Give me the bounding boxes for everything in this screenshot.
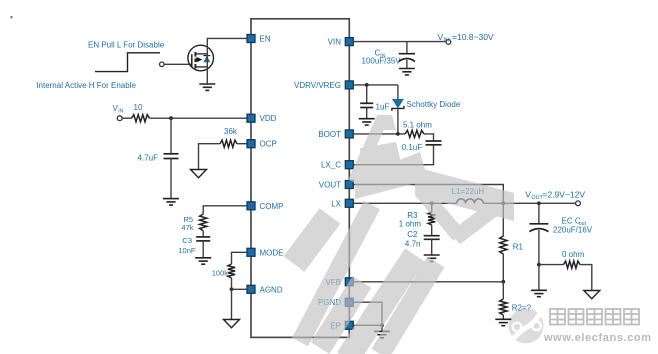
switch S1 contact	[160, 62, 165, 67]
svg-text:EN: EN	[260, 35, 271, 44]
svg-text:36k: 36k	[224, 127, 238, 136]
pin LX_C	[345, 161, 353, 169]
switch S1 lever	[95, 53, 160, 72]
ground under C3	[195, 258, 211, 264]
pin COMP	[247, 202, 255, 210]
svg-text:10: 10	[134, 103, 143, 112]
wire 36k to OCP pin	[237, 143, 247, 145]
svg-text:C3: C3	[182, 236, 192, 245]
svg-text:VDD: VDD	[260, 114, 277, 123]
pin EN	[247, 35, 255, 43]
pin BOOT	[345, 130, 353, 138]
ground under 1uF	[359, 119, 375, 125]
wire VFB pin to divider	[353, 281, 503, 283]
wire junction down	[381, 325, 383, 331]
svg-text:AGND: AGND	[260, 285, 283, 294]
pin EP	[345, 321, 353, 329]
node 0 ohm junction	[537, 263, 541, 267]
wire LX pin to inductor	[353, 202, 456, 204]
svg-text:EN Pull L For Disable: EN Pull L For Disable	[88, 40, 165, 49]
ground under R2	[495, 319, 511, 325]
svg-text:100uF/35V: 100uF/35V	[362, 56, 402, 65]
ground under C2	[424, 255, 440, 261]
svg-text:V: V	[438, 32, 444, 42]
pin PGND	[345, 298, 353, 306]
svg-text:100k: 100k	[212, 269, 229, 278]
ground under CIN	[399, 69, 415, 75]
pin LX	[345, 199, 353, 207]
node VDRV junction	[365, 83, 369, 87]
pin AGND	[247, 285, 255, 293]
svg-text:1uF: 1uF	[376, 102, 390, 111]
wire VIN terminal to resistor	[122, 117, 131, 119]
wire MODE pin to 100k	[232, 252, 247, 264]
ground arrow AGND	[224, 320, 240, 328]
pin OCP	[247, 140, 255, 148]
ground under EC Cout	[531, 290, 547, 296]
svg-text:10nF: 10nF	[178, 246, 196, 255]
node VDD junction	[169, 116, 173, 120]
svg-text:VOUT: VOUT	[319, 181, 341, 190]
wire VDRV pin to diode branch	[353, 84, 398, 86]
node PGND/EP junction	[380, 323, 384, 327]
pin VDRV/VREG	[345, 81, 353, 89]
svg-text:0 ohm: 0 ohm	[562, 250, 585, 259]
pin MODE	[247, 248, 255, 256]
wire AGND junction to AGND pin	[232, 288, 247, 290]
ground under PGND/EP	[374, 331, 390, 337]
svg-text:BOOT: BOOT	[318, 130, 341, 139]
node AGND junction	[230, 287, 234, 291]
svg-text:220uF/16V: 220uF/16V	[553, 226, 593, 235]
node EC cap junction	[537, 201, 541, 205]
wire AGND junction to ground arrow	[231, 289, 233, 319]
ground arrow output	[584, 291, 600, 299]
svg-text:=2.9V~12V: =2.9V~12V	[543, 189, 586, 199]
svg-text:0.1uF: 0.1uF	[402, 143, 423, 152]
ground arrow OCP	[191, 170, 207, 178]
svg-text:Internal Active H For Enable: Internal Active H For Enable	[36, 81, 136, 90]
wire VOUT pin to output node	[353, 185, 503, 204]
svg-text:IN: IN	[444, 38, 449, 44]
node VOUT terminal	[576, 201, 581, 206]
svg-text:LX_C: LX_C	[321, 161, 341, 170]
node stray dot	[11, 16, 13, 18]
wire BOOT pin to 5.1 ohm	[353, 133, 405, 135]
svg-text:=10.8~30V: =10.8~30V	[452, 32, 494, 42]
svg-text:4.7uF: 4.7uF	[138, 153, 159, 162]
svg-text:IN: IN	[118, 109, 123, 115]
wire switch to Q1 gate	[164, 63, 192, 65]
svg-text:47k: 47k	[181, 223, 193, 232]
svg-text:LX: LX	[331, 199, 341, 208]
node VFB junction	[501, 280, 505, 284]
wire EP pin to ground	[353, 324, 382, 326]
svg-text:4.7n: 4.7n	[405, 240, 421, 249]
svg-text:COMP: COMP	[260, 202, 284, 211]
svg-text:VIN: VIN	[328, 38, 342, 47]
svg-text:5.1 ohm: 5.1 ohm	[403, 121, 432, 130]
wire 0.1uF to LX_C pin	[353, 145, 433, 165]
wire resistor to VDD pin	[150, 117, 247, 119]
node VOUT junction	[501, 201, 505, 205]
svg-text:V: V	[525, 189, 531, 199]
svg-text:VDRV/VREG: VDRV/VREG	[294, 81, 341, 90]
svg-text:C2: C2	[407, 230, 418, 239]
ground under Q1	[199, 84, 215, 90]
ground under 4.7uF	[163, 199, 179, 205]
pin VIN	[345, 38, 353, 46]
wire 36k to ground arrow	[199, 144, 221, 170]
pin VDD	[247, 114, 255, 122]
svg-text:1 ohm: 1 ohm	[399, 220, 422, 229]
svg-text:R2=?: R2=?	[512, 303, 532, 312]
node LX snubber junction	[430, 201, 434, 205]
transistor Q1 NMOS	[188, 45, 214, 71]
node VIN input terminal	[446, 40, 451, 45]
pin VFB	[345, 278, 353, 286]
svg-text:www.elecfans.com: www.elecfans.com	[543, 332, 652, 344]
IC U1 body	[251, 19, 349, 338]
svg-text:Schottky Diode: Schottky Diode	[407, 100, 461, 109]
svg-text:OCP: OCP	[260, 140, 277, 149]
wire PGND pin to ground	[353, 302, 382, 325]
wire VIN pin to input terminal	[353, 41, 446, 43]
node BOOT junction	[396, 132, 400, 136]
wire 100k to AGND node	[231, 278, 233, 289]
pin VOUT	[345, 181, 353, 189]
wire inductor to VOUT terminal	[483, 202, 575, 204]
wire D1 to BOOT net	[397, 108, 399, 133]
wire 0 ohm to ground arrow	[580, 265, 592, 291]
svg-text:MODE: MODE	[260, 248, 284, 257]
wire Q1 drain to EN pin	[207, 38, 247, 84]
wire 5.1 ohm to 0.1uF	[424, 134, 434, 141]
svg-text:R1: R1	[513, 242, 524, 251]
wire COMP pin to R5	[203, 206, 247, 214]
